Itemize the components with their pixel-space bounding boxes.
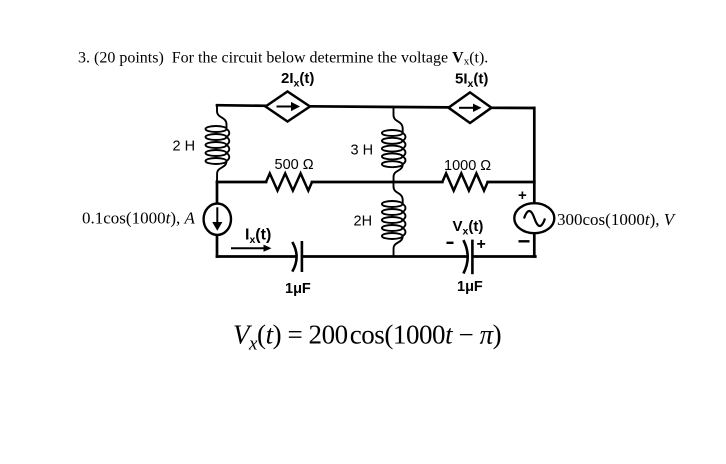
- wire bottom right: [473, 255, 535, 258]
- resistor R1 500ohm: [266, 173, 312, 190]
- inductor L3 2H (middle lower): [382, 182, 406, 257]
- svg-text:500 Ω: 500 Ω: [275, 157, 314, 173]
- svg-text:Vx(t): Vx(t): [453, 218, 484, 238]
- capacitor C2 1uF: [463, 240, 472, 275]
- capacitor C1 1uF: [292, 241, 302, 272]
- Ix arrow: [231, 245, 272, 252]
- cap minus sign: [447, 242, 454, 244]
- wire right rail upper: [533, 108, 536, 204]
- svg-text:3 H: 3 H: [351, 142, 374, 158]
- svg-text:2H: 2H: [354, 214, 373, 230]
- svg-text:+: +: [518, 187, 527, 204]
- wire left rail: middle to current source: [216, 182, 219, 205]
- wire top-right segment: [492, 106, 535, 109]
- source minus: [519, 240, 530, 242]
- svg-text:Vx(t) = 200cos(1000t − π): Vx(t) = 200cos(1000t − π): [233, 320, 501, 355]
- svg-text:3. (20 points) For the circui: 3. (20 points) For the circuit below det…: [78, 50, 488, 68]
- svg-text:+: +: [477, 236, 486, 253]
- wire top-left segment: [217, 104, 266, 107]
- wire left rail: current source to bottom: [216, 234, 219, 257]
- svg-text:2 H: 2 H: [173, 139, 196, 155]
- dependent source U1 diamond: [266, 92, 311, 122]
- current source I1: [204, 204, 231, 235]
- wire bottom left: [217, 255, 296, 258]
- voltage source V1: [514, 203, 554, 233]
- svg-text:0.1cos(1000t), A: 0.1cos(1000t), A: [82, 209, 195, 228]
- wire middle horizontal left: [217, 181, 266, 184]
- dependent source U2 diamond: [449, 92, 492, 123]
- svg-text:1μF: 1μF: [457, 279, 483, 295]
- wire right rail lower: [533, 233, 536, 257]
- svg-text:Ix(t): Ix(t): [245, 227, 271, 247]
- wire middle horizontal right: [488, 181, 535, 184]
- inductor L2 3H (middle upper): [382, 107, 406, 182]
- svg-text:300cos(1000t), V: 300cos(1000t), V: [557, 210, 677, 229]
- wire top-middle segment: [310, 106, 449, 107]
- inductor L1 2H (left): [206, 106, 230, 182]
- wire middle horizontal center: [312, 181, 442, 184]
- wire bottom center: [302, 255, 467, 258]
- svg-text:1000 Ω: 1000 Ω: [444, 158, 491, 174]
- resistor R2 1000ohm: [442, 173, 487, 190]
- svg-text:1μF: 1μF: [285, 281, 311, 297]
